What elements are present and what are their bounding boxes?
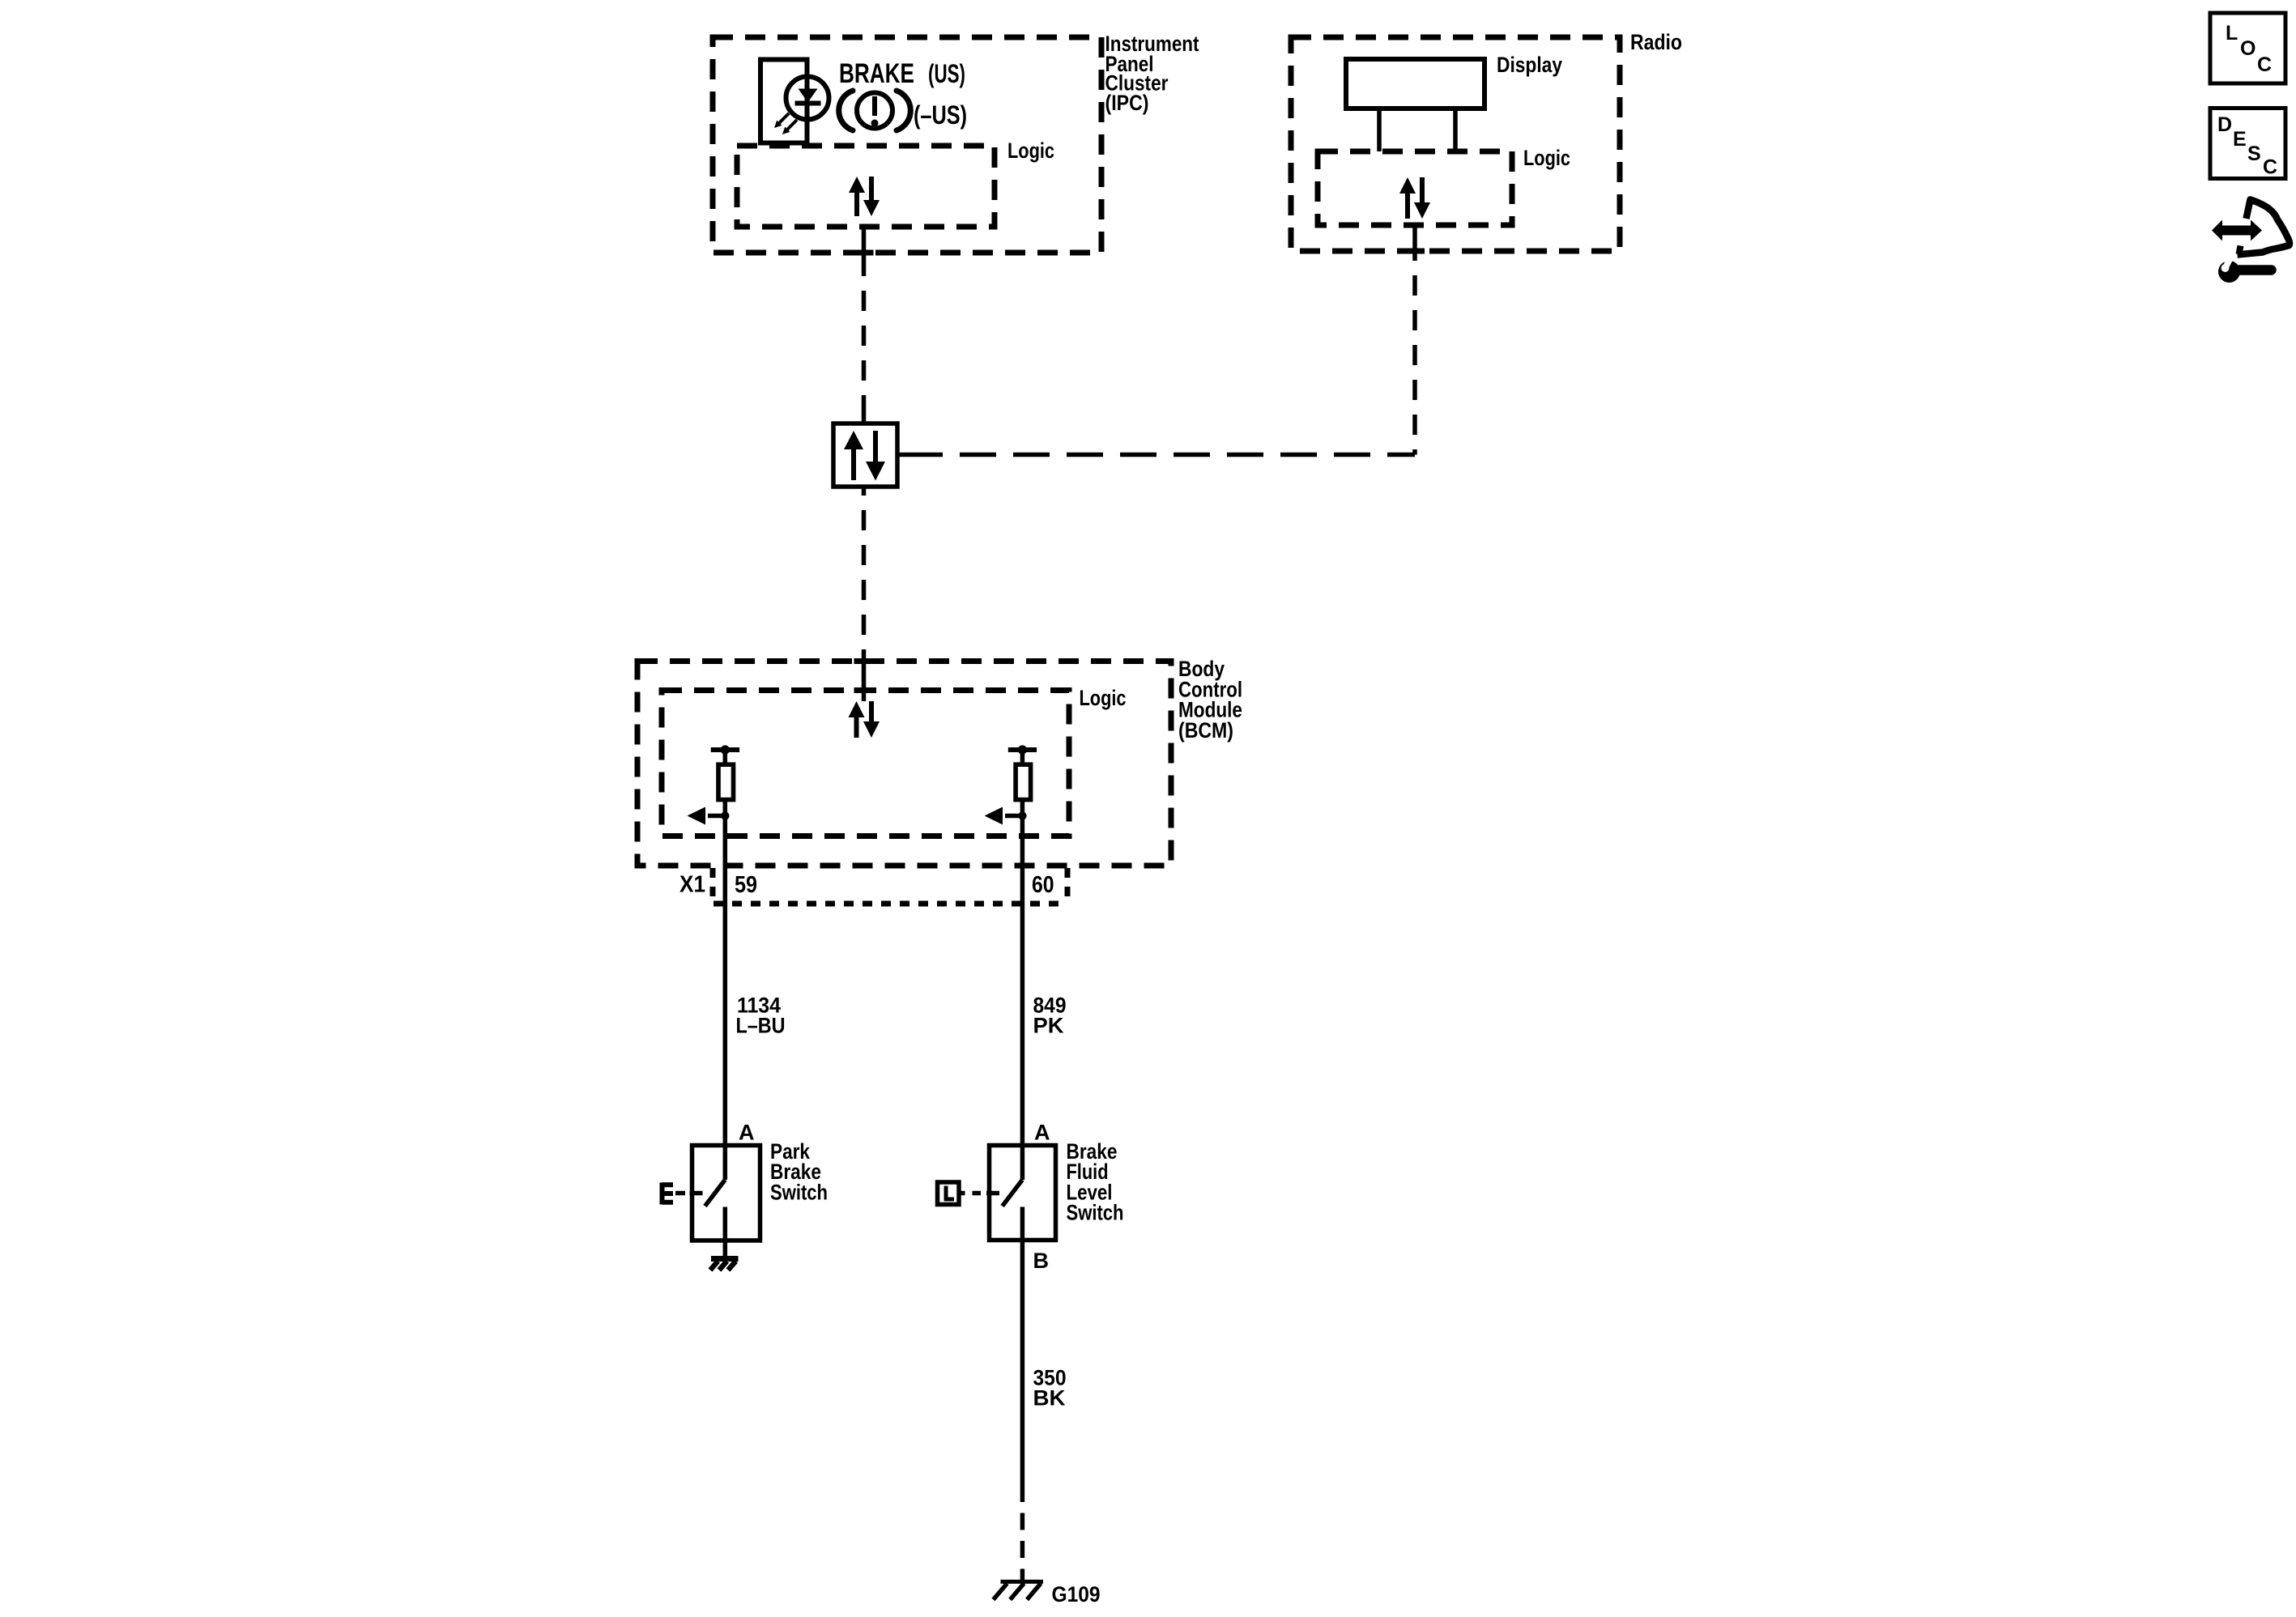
svg-text:O: O xyxy=(2240,37,2256,60)
svg-text:B: B xyxy=(1033,1249,1050,1273)
svg-text:BRAKE: BRAKE xyxy=(839,58,914,89)
svg-text:A: A xyxy=(739,1121,755,1145)
svg-text:L: L xyxy=(2226,22,2238,45)
svg-text:Logic: Logic xyxy=(1080,686,1127,710)
svg-text:(IPC): (IPC) xyxy=(1105,91,1149,115)
svg-text:L–BU: L–BU xyxy=(736,1014,786,1038)
svg-text:C: C xyxy=(2263,156,2277,179)
svg-text:Switch: Switch xyxy=(770,1180,828,1204)
svg-text:G109: G109 xyxy=(1052,1582,1101,1606)
svg-text:C: C xyxy=(2257,53,2272,76)
svg-text:D: D xyxy=(2217,113,2232,136)
svg-text:(–US): (–US) xyxy=(914,100,967,130)
svg-text:PK: PK xyxy=(1033,1014,1064,1038)
svg-text:(US): (US) xyxy=(928,59,965,88)
svg-text:Radio: Radio xyxy=(1630,30,1682,54)
svg-text:BK: BK xyxy=(1033,1386,1067,1411)
svg-text:A: A xyxy=(1034,1121,1050,1145)
svg-text:Display: Display xyxy=(1497,53,1562,77)
svg-text:Switch: Switch xyxy=(1067,1201,1124,1225)
svg-text:60: 60 xyxy=(1032,872,1054,898)
svg-text:Logic: Logic xyxy=(1523,146,1570,170)
svg-text:X1: X1 xyxy=(679,872,705,898)
svg-text:E: E xyxy=(2233,128,2247,151)
svg-text:S: S xyxy=(2247,143,2261,165)
svg-text:59: 59 xyxy=(735,872,757,898)
svg-text:Logic: Logic xyxy=(1007,138,1054,163)
svg-text:(BCM): (BCM) xyxy=(1178,718,1233,743)
